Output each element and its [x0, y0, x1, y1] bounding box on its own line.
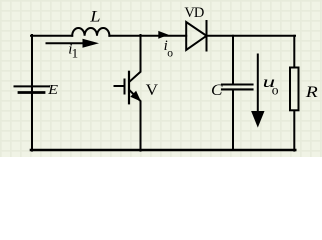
svg-text:C: C	[211, 82, 223, 99]
voltage arrow uo line	[257, 55, 259, 114]
battery E long plate	[15, 85, 50, 87]
wire right side top	[293, 36, 295, 67]
wire diode to top-right corner	[207, 35, 296, 37]
diode VD triangle	[186, 22, 206, 50]
transistor V base bar	[128, 72, 130, 104]
svg-text:o: o	[272, 83, 279, 98]
current arrow io head (on top wire)	[158, 31, 168, 39]
svg-text:1: 1	[72, 45, 79, 60]
bottom wire	[31, 149, 295, 152]
svg-text:E: E	[47, 82, 59, 97]
left wire (through battery)	[31, 35, 33, 151]
wire R to bottom-right corner	[293, 111, 295, 151]
transistor V emitter wire	[130, 91, 141, 151]
transistor V gate bar	[124, 80, 126, 94]
transistor V collector wire	[130, 35, 141, 81]
battery E short plate	[19, 91, 44, 94]
resistor R box	[290, 68, 299, 111]
svg-text:R: R	[305, 84, 319, 101]
capacitor C bottom wire	[232, 90, 234, 150]
current arrow i1 line	[47, 42, 86, 44]
wire inductor to diode	[109, 35, 186, 37]
svg-text:L: L	[89, 9, 100, 26]
transistor V emitter arrowhead	[130, 91, 141, 102]
voltage arrow uo head	[251, 111, 264, 128]
current arrow i1 head	[83, 39, 100, 48]
svg-text:V: V	[146, 82, 159, 99]
diode VD cathode bar	[206, 21, 208, 51]
capacitor C plates	[222, 85, 253, 90]
svg-text:o: o	[167, 48, 173, 60]
capacitor C top wire	[232, 36, 234, 84]
transistor V gate lead	[115, 85, 124, 87]
svg-text:VD: VD	[184, 5, 203, 21]
inductor L	[72, 28, 109, 36]
wire top-left segment	[31, 35, 72, 37]
